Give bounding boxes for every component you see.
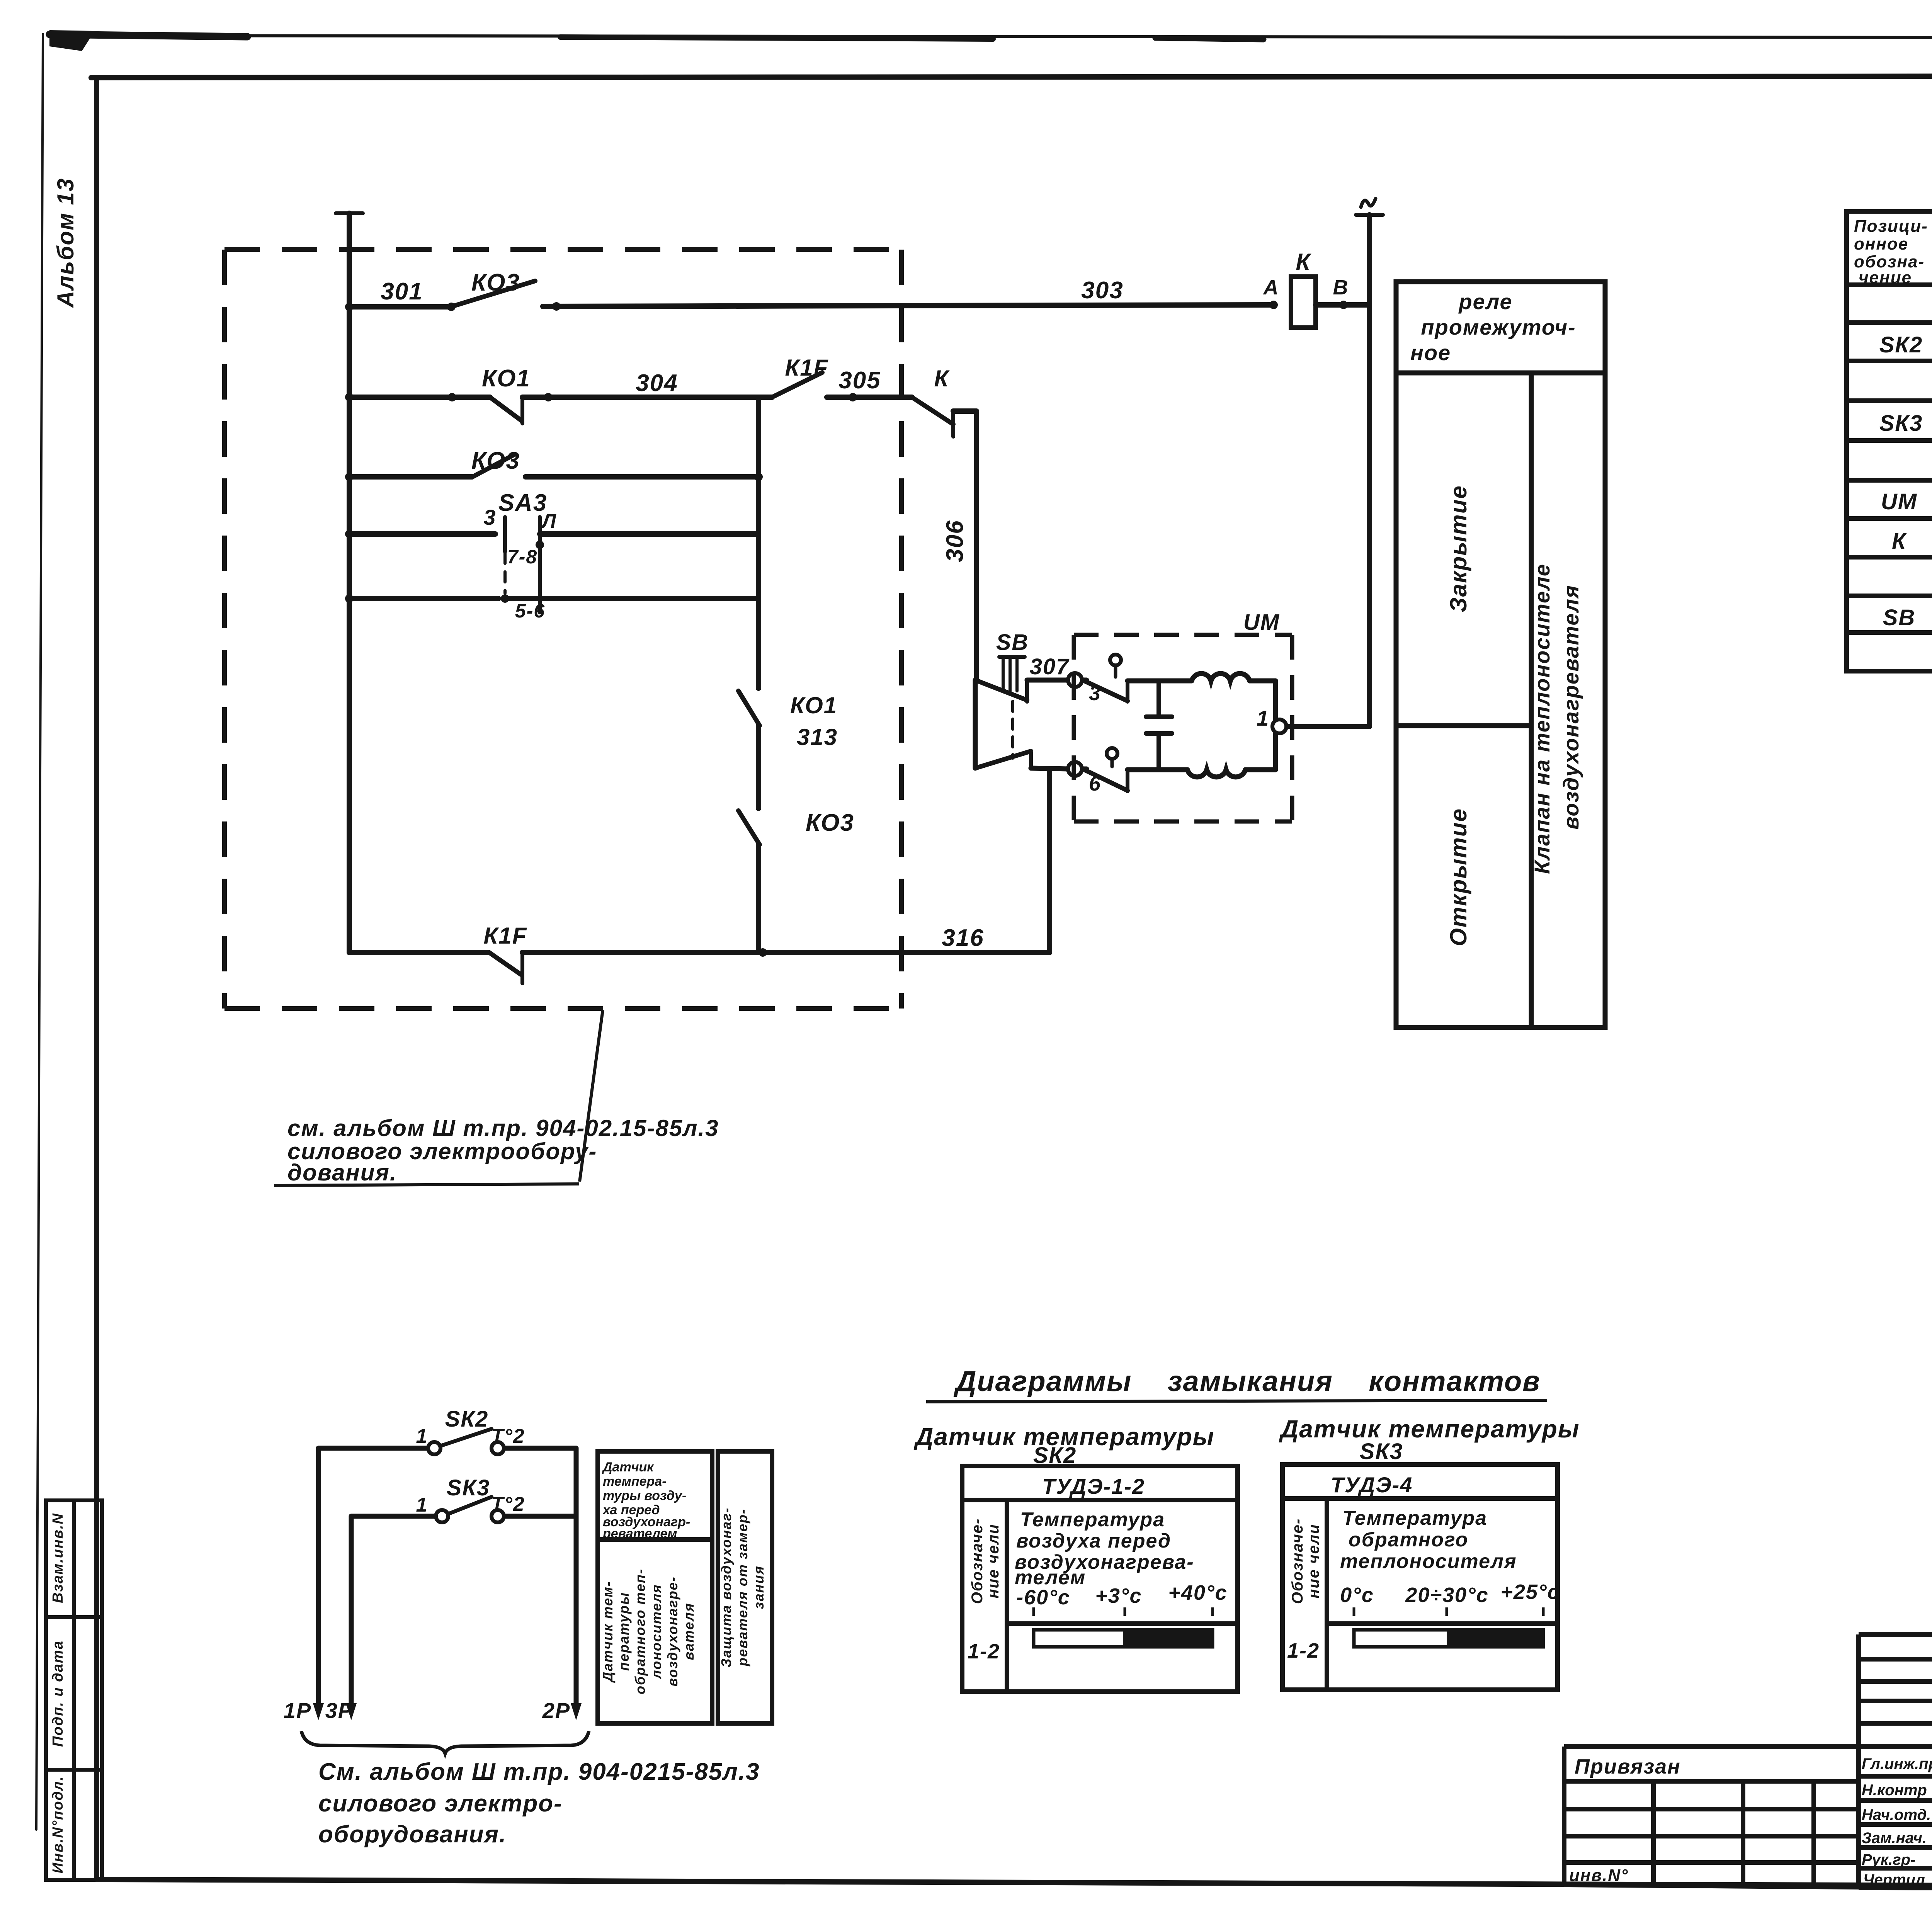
svg-text:SК2: SК2: [1879, 332, 1923, 357]
svg-text:Нач.отд.: Нач.отд.: [1862, 1806, 1931, 1823]
svg-text:Альбом 13: Альбом 13: [53, 178, 78, 308]
svg-text:К1F: К1F: [785, 355, 829, 381]
svg-text:см. альбом Ш т.пр. 904-02.15-8: см. альбом Ш т.пр. 904-02.15-85л.3: [287, 1115, 719, 1141]
svg-text:Гл.инж.пр: Гл.инж.пр: [1862, 1755, 1932, 1772]
svg-text:306: 306: [942, 520, 968, 562]
svg-text:SК3: SК3: [447, 1475, 490, 1500]
svg-text:-60°с: -60°с: [1016, 1586, 1070, 1609]
svg-text:Клапан на теплоносителе: Клапан на теплоносителе: [1530, 563, 1554, 874]
svg-text:Температура: Температура: [1342, 1507, 1487, 1529]
svg-text:1: 1: [416, 1494, 428, 1516]
svg-text:оборудования.: оборудования.: [318, 1821, 507, 1848]
svg-text:Защита воздухонаг-: Защита воздухонаг-: [718, 1507, 734, 1667]
svg-text:301: 301: [381, 278, 423, 305]
svg-text:дования.: дования.: [287, 1160, 397, 1185]
svg-text:5-6: 5-6: [515, 600, 545, 622]
svg-text:ние чели: ние чели: [985, 1524, 1002, 1598]
svg-text:чение: чение: [1859, 268, 1912, 287]
svg-text:ревателя от замер-: ревателя от замер-: [735, 1509, 750, 1667]
svg-text:SВ: SВ: [996, 630, 1029, 655]
svg-text:КО1: КО1: [790, 692, 837, 718]
svg-text:Зам.нач.: Зам.нач.: [1862, 1830, 1927, 1847]
svg-text:КО1: КО1: [482, 365, 531, 392]
svg-text:КО3: КО3: [806, 810, 854, 836]
svg-text:Подп. и дата: Подп. и дата: [50, 1640, 66, 1747]
svg-text:обратного: обратного: [1349, 1529, 1468, 1551]
svg-text:КО3: КО3: [471, 447, 520, 474]
svg-text:303: 303: [1081, 277, 1123, 304]
svg-text:Закрытие: Закрытие: [1446, 485, 1471, 612]
svg-text:+40°с: +40°с: [1168, 1581, 1227, 1604]
svg-text:К1F: К1F: [484, 923, 527, 949]
svg-text:20÷30°с: 20÷30°с: [1405, 1583, 1488, 1607]
svg-text:Позици-: Позици-: [1854, 217, 1928, 236]
svg-text:Датчик тем-: Датчик тем-: [600, 1581, 616, 1683]
svg-text:реле: реле: [1458, 289, 1512, 314]
svg-text:Рук.гр-: Рук.гр-: [1862, 1851, 1915, 1868]
svg-text:Взам.инв.N: Взам.инв.N: [50, 1513, 66, 1603]
svg-text:1: 1: [1257, 706, 1269, 730]
svg-text:ТУДЭ-4: ТУДЭ-4: [1331, 1473, 1413, 1497]
svg-text:пературы: пературы: [616, 1592, 632, 1671]
svg-text:ние чели: ние чели: [1305, 1524, 1322, 1598]
svg-text:Инв.N°подл.: Инв.N°подл.: [50, 1776, 66, 1874]
svg-text:Привязан: Привязан: [1575, 1755, 1681, 1778]
svg-text:3: 3: [1089, 682, 1101, 705]
svg-text:UМ: UМ: [1881, 489, 1917, 514]
svg-text:Обозначе-: Обозначе-: [969, 1518, 986, 1604]
svg-text:Т°2: Т°2: [491, 1425, 525, 1447]
svg-text:SК3: SК3: [1360, 1439, 1403, 1464]
svg-text:силового электро-: силового электро-: [318, 1790, 563, 1817]
svg-text:7-8: 7-8: [507, 546, 537, 568]
svg-text:304: 304: [636, 370, 678, 396]
svg-text:ное: ное: [1410, 340, 1451, 365]
svg-text:А: А: [1263, 276, 1279, 299]
svg-text:обратного теп-: обратного теп-: [632, 1568, 648, 1694]
svg-text:темпера-: темпера-: [603, 1474, 667, 1489]
svg-text:1-2: 1-2: [968, 1640, 1000, 1663]
svg-text:Т°2: Т°2: [491, 1493, 525, 1515]
svg-text:Л: Л: [541, 510, 557, 532]
svg-text:Температура: Температура: [1020, 1509, 1165, 1531]
svg-text:1Р: 1Р: [284, 1698, 312, 1723]
svg-text:SВ: SВ: [1883, 605, 1916, 630]
svg-text:SА3: SА3: [498, 490, 548, 516]
svg-text:2Р: 2Р: [542, 1698, 571, 1723]
svg-text:305: 305: [838, 367, 881, 394]
svg-text:SК2: SК2: [445, 1406, 489, 1432]
svg-text:воздухонагревателя: воздухонагревателя: [1559, 585, 1583, 830]
svg-text:Обозначе-: Обозначе-: [1289, 1518, 1306, 1604]
svg-text:туры возду-: туры возду-: [603, 1488, 686, 1503]
svg-text:К: К: [1892, 529, 1907, 554]
svg-text:В: В: [1333, 276, 1349, 299]
svg-text:ревателем: ревателем: [602, 1526, 677, 1541]
svg-text:313: 313: [797, 724, 838, 750]
svg-text:SК3: SК3: [1879, 411, 1923, 436]
svg-text:6: 6: [1089, 772, 1101, 795]
svg-text:См. альбом Ш т.пр. 904-0215-85: См. альбом Ш т.пр. 904-0215-85л.3: [318, 1759, 760, 1785]
svg-text:теплоносителя: теплоносителя: [1340, 1550, 1517, 1573]
svg-text:вателя: вателя: [681, 1603, 697, 1660]
svg-text:лоносителя: лоносителя: [648, 1584, 664, 1679]
svg-text:К: К: [934, 366, 950, 391]
svg-text:1: 1: [416, 1425, 428, 1447]
svg-text:UМ: UМ: [1243, 610, 1280, 635]
svg-text:0°с: 0°с: [1340, 1583, 1374, 1607]
svg-text:1-2: 1-2: [1287, 1639, 1320, 1662]
svg-text:307: 307: [1030, 654, 1070, 679]
svg-text:Датчик: Датчик: [602, 1460, 654, 1475]
svg-text:зания: зания: [751, 1565, 767, 1609]
svg-text:воздуха перед: воздуха перед: [1016, 1530, 1171, 1552]
svg-text:Датчик температуры: Датчик температуры: [1279, 1415, 1580, 1443]
svg-text:3: 3: [483, 505, 496, 529]
svg-text:+25°с: +25°с: [1500, 1580, 1560, 1604]
svg-text:Н.контр: Н.контр: [1862, 1782, 1927, 1799]
svg-text:К: К: [1296, 249, 1312, 275]
svg-text:КО3: КО3: [471, 269, 520, 296]
svg-text:Открытие: Открытие: [1446, 808, 1471, 946]
svg-text:+3°с: +3°с: [1095, 1584, 1142, 1607]
svg-text:инв.N°: инв.N°: [1569, 1866, 1629, 1885]
svg-text:Чертил: Чертил: [1863, 1871, 1925, 1888]
svg-text:316: 316: [942, 925, 984, 951]
svg-text:онное: онное: [1854, 235, 1908, 253]
svg-text:Диаграммы замыкания контакто: Диаграммы замыкания контактов: [953, 1365, 1541, 1397]
svg-text:ТУДЭ-1-2: ТУДЭ-1-2: [1042, 1474, 1145, 1498]
svg-text:3Р: 3Р: [325, 1698, 354, 1723]
svg-text:воздухонагре-: воздухонагре-: [665, 1576, 680, 1687]
svg-text:промежуточ-: промежуточ-: [1421, 315, 1576, 339]
